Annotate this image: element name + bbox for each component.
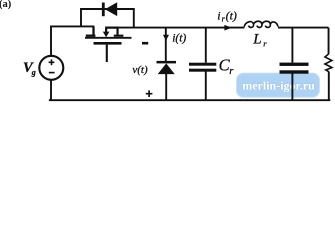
svg-text:v(t): v(t)	[132, 64, 148, 76]
transistor Q1 gate lead	[106, 45, 108, 62]
inductor Lr coil	[244, 21, 278, 27]
wire: middle diode branch top	[165, 28, 167, 61]
wire: output cap branch	[291, 28, 293, 100]
capacitor Cr plates	[189, 63, 216, 72]
svg-text:i: i	[217, 8, 220, 22]
wire: bottom rail	[49, 99, 330, 101]
diode D2 (middle branch, pointing up)	[157, 61, 177, 74]
transistor Q1 body arrowhead	[103, 32, 110, 38]
wire: Vg top stub and left rail	[50, 26, 94, 55]
svg-text:merlin-igor.ru: merlin-igor.ru	[242, 79, 315, 93]
label plus of v(t)	[146, 90, 153, 97]
transistor Q1 source drop and foot	[86, 26, 96, 35]
svg-text:g: g	[31, 68, 36, 77]
wire: antiparallel diode loop	[80, 9, 135, 28]
wire: Vg bottom stub	[50, 80, 52, 100]
watermark box	[237, 73, 320, 97]
voltage source minus	[49, 72, 55, 74]
transistor Q1 channel line	[85, 37, 132, 39]
arrow i_r(t) on top rail	[224, 25, 231, 31]
wire: middle diode branch bottom	[165, 74, 167, 101]
svg-text:L: L	[252, 31, 261, 47]
diode D1 (antiparallel, pointing left)	[102, 2, 117, 16]
transistor Q1 body stub and drain jog	[105, 28, 123, 36]
wire: top rail right section	[117, 27, 329, 29]
wire: Cr branch	[205, 28, 207, 100]
voltage source Vg circle	[39, 56, 63, 80]
svg-text:(t): (t)	[226, 8, 237, 22]
wire: resistor to bottom rail	[328, 72, 330, 101]
svg-text:(a): (a)	[0, 0, 12, 10]
voltage source plus	[49, 59, 55, 65]
resistor R zigzag	[325, 54, 332, 72]
current arrow i(t) on middle branch	[163, 35, 169, 41]
capacitor C (output) plates	[280, 63, 309, 74]
label minus of v(t)	[142, 42, 148, 45]
wire: right edge down to resistor	[328, 28, 330, 55]
transistor Q1 gate bar	[94, 42, 122, 45]
svg-text:i(t): i(t)	[172, 32, 186, 44]
